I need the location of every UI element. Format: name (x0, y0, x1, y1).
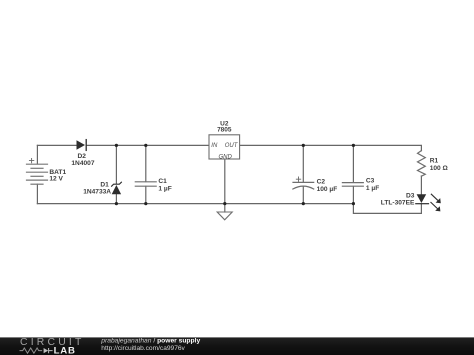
svg-text:7805: 7805 (217, 127, 232, 134)
battery BAT1 (27, 158, 67, 184)
node junction D1 bottom (115, 202, 118, 205)
wire D1 bottom lead (115, 194, 117, 203)
svg-text:D3: D3 (406, 193, 415, 200)
zener diode D1 (83, 182, 121, 196)
wire C1 bottom lead (145, 186, 147, 203)
wire battery top lead (36, 145, 38, 164)
svg-text:R1: R1 (430, 157, 439, 164)
svg-text:12 V: 12 V (49, 176, 63, 183)
node junction C3 top (352, 144, 355, 147)
wire bottom step to LED branch (353, 204, 421, 214)
diode D2 (71, 140, 94, 167)
logo diode (44, 348, 49, 353)
capacitor C1 (135, 178, 171, 193)
svg-text:IN: IN (211, 143, 218, 149)
wire battery bottom lead (36, 184, 38, 203)
svg-text:C2: C2 (317, 179, 326, 186)
svg-text:LAB: LAB (54, 346, 76, 355)
wire bottom ground rail (37, 203, 353, 205)
capacitor C2 polarized (293, 177, 337, 193)
svg-text:LTL-307EE: LTL-307EE (381, 200, 415, 207)
svg-text:C3: C3 (366, 177, 375, 184)
svg-text:1N4007: 1N4007 (71, 160, 94, 167)
svg-text:100 µF: 100 µF (317, 186, 338, 193)
node junction C1 top (144, 144, 147, 147)
svg-text:1 µF: 1 µF (366, 185, 379, 192)
node junction C2 top (302, 144, 305, 147)
node junction D1 top (115, 144, 118, 147)
wire D1 top lead (115, 145, 117, 183)
svg-text:C1: C1 (158, 178, 167, 185)
wire C2 top lead (302, 145, 304, 182)
svg-text:OUT: OUT (225, 143, 239, 149)
wire C1 top lead (145, 145, 147, 181)
resistor R1 (418, 151, 449, 177)
svg-text:100 Ω: 100 Ω (430, 165, 449, 172)
LED D3 (381, 193, 441, 212)
wire C3 top lead (352, 145, 354, 182)
node junction C2 bottom (302, 202, 305, 205)
svg-text:http://circuitlab.com/ca9976v: http://circuitlab.com/ca9976v (101, 345, 185, 352)
svg-text:1 µF: 1 µF (158, 186, 171, 193)
svg-text:GND: GND (219, 154, 233, 160)
node junction ground stem (223, 202, 226, 205)
wire R1 bottom to LED (420, 176, 422, 194)
node junction C3 bottom (352, 202, 355, 205)
footer bar (0, 337, 474, 355)
ground (217, 212, 232, 220)
wire D2 cathode to U2 IN (86, 144, 209, 146)
logo resistor zigzag (20, 348, 43, 353)
capacitor C3 (342, 177, 379, 191)
svg-text:prabajeganathan / power supply: prabajeganathan / power supply (100, 337, 200, 344)
wire C3 bottom lead (352, 186, 354, 203)
wire U2 OUT to R1 corner (240, 145, 422, 150)
wire top rail battery to D2 (37, 144, 76, 146)
wire U2 GND stem to ground (224, 159, 226, 212)
IC U2 7805 voltage regulator (209, 120, 240, 160)
node junction C1 bottom (144, 202, 147, 205)
svg-text:1N4733A: 1N4733A (83, 189, 111, 196)
wire C2 bottom lead (302, 186, 304, 203)
